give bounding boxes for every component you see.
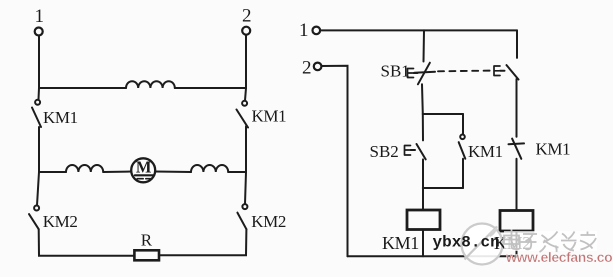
contactor contact KM2 (right, NO) <box>237 204 247 229</box>
wire: join bar down to coil KM1 <box>422 188 424 210</box>
wire: SB2 lower lead to join bar <box>422 159 424 188</box>
watermark: elecfans logo characters (stylized strokes) <box>504 230 597 253</box>
wire: coil KM1 to bottom rail <box>422 230 424 257</box>
contactor interlock contact KM1 (NC) <box>509 139 525 159</box>
svg-text:2: 2 <box>302 58 312 79</box>
svg-text:ybx8.cn: ybx8.cn <box>433 234 500 252</box>
wire: SB2 upper lead <box>422 114 424 140</box>
contactor contact KM1 (right, NO) <box>237 101 249 128</box>
wire: SB1 NO to KM1 interlock contact <box>516 79 518 137</box>
coil KM1 (contactor coil) <box>407 210 440 230</box>
wire: left rail KM2 down to bottom rail <box>39 229 135 256</box>
wire: KM1 auxiliary branch upper lead <box>462 114 464 135</box>
wire: middle rail, left vertical to armature winding <box>39 171 66 173</box>
terminal 2 (left circuit) <box>242 27 250 35</box>
wire: terminal 2 down to top rail junction <box>245 35 247 88</box>
svg-text:2: 2 <box>242 6 252 27</box>
wire: winding L3 to right rail <box>228 171 246 173</box>
svg-text:KM2: KM2 <box>43 212 78 231</box>
wire: parallel branch top bar <box>423 113 463 115</box>
svg-text:KM1: KM1 <box>252 107 287 126</box>
wire: line 1 top rail <box>320 29 517 31</box>
svg-text:R: R <box>141 231 153 250</box>
terminal 1 (left circuit) <box>35 28 43 36</box>
inductor L3 (right armature winding, 3 loops) <box>191 165 228 172</box>
wire: left rail middle to KM2 upper contact <box>37 172 39 205</box>
wire: branch 2 corner from top rail down to SB1 NO <box>516 30 518 58</box>
wire: motor to winding L3 <box>155 171 191 174</box>
wire: right rail from top junction to right KM1 upper contact <box>245 88 246 101</box>
wire: left rail from top junction to KM1 upper contact <box>38 88 41 99</box>
svg-text:1: 1 <box>299 20 309 41</box>
wire: coil KM2 to bottom rail <box>516 231 518 256</box>
terminal 2 (right circuit) <box>314 63 322 71</box>
wire: right rail middle to KM2 upper contact <box>245 172 246 204</box>
svg-text:1: 1 <box>35 6 45 27</box>
wire: KM1 interlock to coil KM2 <box>516 159 518 211</box>
wire: line 2 to left rail corner <box>322 66 348 257</box>
svg-text:KM2: KM2 <box>251 212 286 231</box>
wire: winding L2 to motor <box>103 171 131 174</box>
watermark: ybx8.cn site logo circle <box>462 224 503 265</box>
svg-text:KM1: KM1 <box>43 108 78 127</box>
contactor contact KM1 (left, NO) <box>32 100 41 127</box>
svg-text:KM1: KM1 <box>468 142 503 161</box>
svg-text:SB2: SB2 <box>370 142 399 161</box>
wire: bottom rail of control circuit <box>348 255 517 257</box>
wire: branch 1 from top rail to SB1 <box>423 30 426 61</box>
wire: top rail right segment <box>175 87 246 89</box>
svg-text:KM1: KM1 <box>382 233 419 253</box>
wire: top rail left segment <box>39 87 126 89</box>
inductor L2 (left armature winding, 3 loops) <box>66 165 103 172</box>
wire: terminal 1 down to top rail junction <box>38 36 40 88</box>
svg-text:M: M <box>136 158 152 177</box>
push button SB1 (NO linked contact) <box>494 65 519 79</box>
contactor auxiliary contact KM1 (self-holding, NO) <box>459 135 466 159</box>
mechanical linkage (dashed) between SB1 contacts <box>438 70 492 73</box>
wire: resistor to right rail along bottom <box>159 229 246 255</box>
terminal 1 (right circuit) <box>313 27 321 35</box>
wire: left rail KM1 to middle rail <box>38 127 40 172</box>
svg-text:KM1: KM1 <box>536 140 571 159</box>
wire: right rail KM1 to middle rail <box>245 126 247 172</box>
inductor L1 (top winding, 4 loops) <box>126 81 175 88</box>
wire: parallel branch bottom bar <box>423 187 463 189</box>
wire: KM1 aux lower lead to join bar <box>462 159 464 188</box>
svg-text:SB1: SB1 <box>381 62 410 81</box>
resistor R <box>134 250 159 260</box>
push button SB2 (NO contact with actuator) <box>405 144 426 159</box>
coil KM2 (contactor coil) <box>500 211 533 232</box>
push button SB1 (NC contact with actuator) <box>408 63 436 85</box>
motor M <box>131 158 155 183</box>
contactor contact KM2 (left, NO) <box>29 206 39 230</box>
wire: SB1 to parallel split <box>421 84 424 114</box>
svg-text:www.elecfans.com: www.elecfans.com <box>505 249 613 265</box>
